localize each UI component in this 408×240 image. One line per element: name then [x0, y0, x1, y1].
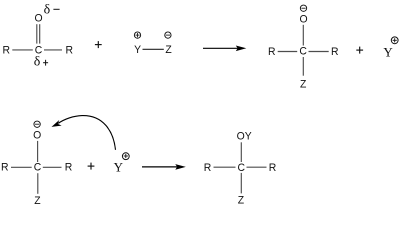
- bond R5-C3: [11, 166, 32, 168]
- svg-text:C: C: [34, 161, 42, 173]
- svg-text:C: C: [238, 162, 246, 174]
- minus-circle on Z (reagent): [165, 32, 171, 38]
- label delta-minus on O1: [44, 3, 60, 18]
- svg-text:O: O: [33, 129, 41, 141]
- bond O2-C2: [302, 25, 304, 46]
- atom O3 (bottom-left oxygen): [33, 129, 41, 141]
- bond Y-Z: [143, 48, 164, 50]
- label delta-plus on C1: [34, 55, 48, 70]
- plus sign (products, top): [356, 47, 363, 54]
- svg-text:C: C: [299, 45, 307, 57]
- atom R1 (ketone left R): [2, 44, 10, 56]
- svg-text:R: R: [65, 161, 73, 173]
- minus-circle on O3 (alkoxide bottom): [34, 121, 40, 127]
- svg-text:Y: Y: [383, 45, 393, 60]
- atom group OY (bottom product): [237, 130, 252, 142]
- svg-text:R: R: [1, 161, 9, 173]
- bond C4-R8: [247, 166, 267, 168]
- atom R2 (ketone right R): [66, 44, 74, 56]
- atom Z4 (bottom product Z): [238, 194, 245, 206]
- atom Z (reagent): [165, 44, 172, 56]
- svg-text:R: R: [204, 161, 212, 173]
- svg-text:Z: Z: [165, 44, 172, 56]
- svg-text:Z: Z: [34, 194, 41, 206]
- bond R3-C2: [278, 51, 298, 53]
- bond R1-C1: [12, 49, 33, 51]
- double bond C1=O1: [37, 24, 40, 43]
- bond C2-Z2: [302, 57, 304, 76]
- bond C3-R6: [43, 166, 62, 168]
- bond C4-Z4: [240, 173, 242, 194]
- svg-text:OY: OY: [237, 130, 252, 142]
- atom R3 (top product left R): [268, 46, 276, 58]
- atom C3 (bottom-left carbon): [34, 161, 42, 173]
- svg-text:O: O: [299, 13, 307, 25]
- svg-text:Y: Y: [134, 44, 141, 56]
- atom R4 (top product right R): [331, 46, 339, 58]
- reaction arrow (top): [203, 46, 246, 52]
- svg-text:δ: δ: [34, 55, 41, 70]
- svg-text:Y: Y: [114, 160, 124, 175]
- curved arrow Y to O (mechanism): [52, 116, 116, 150]
- minus-circle on O2 (alkoxide top): [300, 5, 306, 11]
- svg-text:R: R: [2, 44, 10, 56]
- svg-text:Z: Z: [300, 78, 307, 90]
- atom R7 (bottom product left R): [204, 161, 212, 173]
- plus-circle on bottom Y+: [122, 153, 129, 160]
- plus-circle on top Y+: [391, 37, 398, 44]
- atom R6 (bottom-left right R): [65, 161, 73, 173]
- svg-text:R: R: [269, 161, 277, 173]
- svg-text:R: R: [268, 46, 276, 58]
- atom Z2 (top product Z): [300, 78, 307, 90]
- atom C1 (carbonyl carbon): [35, 44, 43, 56]
- svg-text:R: R: [66, 44, 74, 56]
- ion Y+ (top, serif Y): [383, 45, 393, 60]
- reaction arrow (bottom): [142, 164, 186, 170]
- plus-circle on Y (reagent): [134, 32, 140, 38]
- atom R8 (bottom product right R): [269, 161, 277, 173]
- bond O4-C4: [240, 142, 242, 162]
- svg-text:Z: Z: [238, 194, 245, 206]
- svg-text:δ: δ: [44, 3, 51, 18]
- atom C4 (bottom product carbon): [238, 162, 246, 174]
- bond O3-C3: [37, 141, 39, 162]
- svg-text:R: R: [331, 46, 339, 58]
- atom R5 (bottom-left left R): [1, 161, 9, 173]
- atom O2 (alkoxide oxygen, top product): [299, 13, 307, 25]
- atom Z3 (bottom-left Z): [34, 194, 41, 206]
- bond C3-Z3: [37, 173, 39, 194]
- svg-text:O: O: [35, 12, 43, 24]
- atom O1 (carbonyl oxygen): [35, 12, 43, 24]
- ion Y+ (bottom, serif Y): [114, 160, 124, 175]
- plus sign (reactants, top): [95, 41, 102, 48]
- bond C1-R2: [44, 49, 62, 51]
- bond C2-R4: [309, 51, 329, 53]
- atom Y (reagent): [134, 44, 141, 56]
- bond R7-C4: [214, 166, 236, 168]
- plus sign (bottom reactants): [88, 163, 95, 170]
- atom C2 (top product carbon): [299, 45, 307, 57]
